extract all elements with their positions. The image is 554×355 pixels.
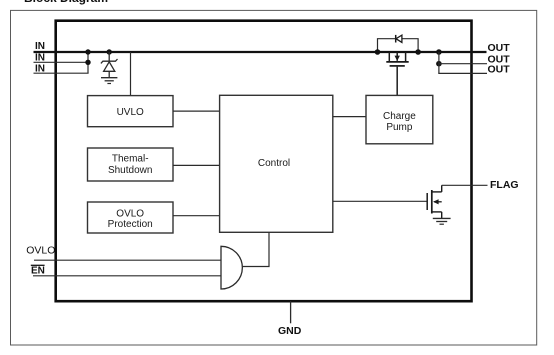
- svg-text:IN: IN: [35, 63, 45, 74]
- svg-text:OVLO: OVLO: [26, 245, 55, 257]
- svg-text:FLAG: FLAG: [490, 179, 519, 191]
- wire: OVLO input: [34, 259, 221, 261]
- block UVLO: [88, 96, 174, 127]
- wire: main IN-OUT rail: [34, 51, 487, 53]
- svg-text:Charge: Charge: [383, 111, 416, 122]
- svg-text:UVLO: UVLO: [117, 107, 144, 118]
- node: IN junction 1: [85, 49, 90, 54]
- svg-text:Shutdown: Shutdown: [108, 165, 152, 176]
- node: IN junction 2: [85, 60, 90, 65]
- wire: EN input: [33, 275, 221, 277]
- svg-text:IN: IN: [35, 53, 45, 64]
- svg-text:IN: IN: [35, 41, 45, 52]
- wire: zener to ground: [108, 71, 110, 77]
- block Thermal-Shutdown: [88, 148, 174, 181]
- node: OUT junction 1: [436, 49, 442, 55]
- AND gate U2: [221, 246, 242, 289]
- wire: Control to Charge Pump: [333, 116, 366, 118]
- FLAG MOSFET Q2: [427, 185, 442, 218]
- ground symbol (zener): [101, 78, 117, 84]
- body diode loop wire: [378, 39, 419, 52]
- wire: OUT line 2: [439, 63, 487, 65]
- IC boundary box: [56, 21, 472, 302]
- svg-text:GND: GND: [278, 325, 302, 337]
- svg-text:OUT: OUT: [488, 64, 511, 76]
- wire: rail to UVLO: [130, 52, 132, 96]
- node: MOSFET drain dot: [375, 49, 381, 55]
- block OVLO Protection: [88, 202, 174, 233]
- wire: FLAG output: [442, 184, 488, 186]
- zener diode D1 triangle: [104, 62, 115, 72]
- node: zener tap: [107, 49, 112, 54]
- wire: OUT line 3: [438, 72, 487, 74]
- ground symbol (FLAG MOSFET): [433, 218, 451, 224]
- svg-text:Protection: Protection: [108, 219, 153, 230]
- svg-text:Pump: Pump: [386, 122, 413, 133]
- wire: Control to FLAG gate: [333, 200, 427, 202]
- wire: gate lead to charge pump: [396, 66, 398, 95]
- wire: zener drop: [108, 52, 110, 61]
- wire: Thermal to Control: [173, 164, 220, 166]
- wire: IN line 3: [34, 72, 89, 74]
- block Charge Pump: [366, 95, 433, 143]
- node: OUT junction 2: [436, 61, 442, 67]
- svg-text:OUT: OUT: [488, 42, 511, 54]
- wire: IN line 2: [34, 61, 89, 63]
- block Control: [220, 95, 333, 232]
- svg-text:Control: Control: [258, 158, 290, 169]
- wire: IN bus vertical: [87, 52, 89, 73]
- body diode D2: [396, 35, 402, 43]
- pass MOSFET Q1: [386, 52, 408, 66]
- wire: OUT bus vertical: [438, 52, 440, 73]
- svg-text:EN: EN: [31, 266, 45, 277]
- wire: AND output: [243, 232, 269, 266]
- wire: OVLO Protection to Control: [173, 215, 220, 217]
- svg-text:OVLO: OVLO: [116, 209, 144, 220]
- node: MOSFET source dot: [415, 49, 421, 55]
- zener diode D1 cathode bar: [101, 59, 118, 63]
- wire: GND stub: [290, 301, 292, 323]
- wire: UVLO to Control: [173, 110, 220, 112]
- svg-text:Block Diagram: Block Diagram: [24, 0, 108, 5]
- svg-text:Themal-: Themal-: [112, 154, 149, 165]
